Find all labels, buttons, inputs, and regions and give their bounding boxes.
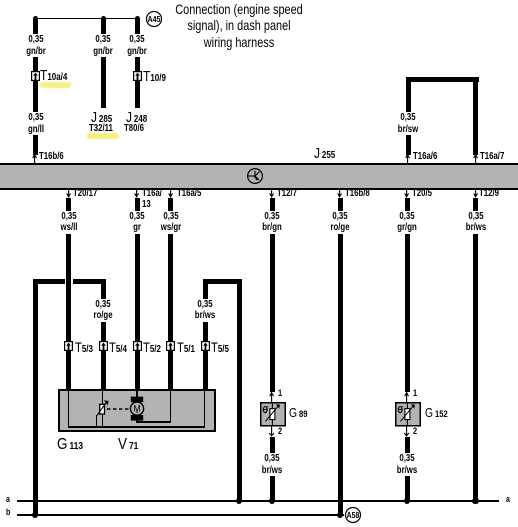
- label T80/6: [124, 123, 144, 134]
- connector pin symbol T5/4: [99, 341, 108, 351]
- label J285: [91, 111, 112, 127]
- connector pin symbol T5/1: [166, 341, 175, 351]
- wire: right branch horizontal: [203, 279, 242, 284]
- label T16a/5: [177, 188, 201, 199]
- bus bar J255 (dash panel wiring harness): [0, 163, 518, 190]
- connector pin symbol T10/9: [133, 71, 142, 81]
- wire: dashed wiper link to motor: [107, 408, 131, 410]
- ground line a: [17, 500, 499, 501]
- svg-text:A58: A58: [346, 510, 359, 520]
- wire: left branch horizontal (left segment): [33, 279, 65, 284]
- label T20/17: [73, 188, 97, 199]
- connector A58 circle: [345, 507, 361, 523]
- label 0,35 gn/br (left): [24, 34, 47, 57]
- label a (left): [6, 494, 10, 505]
- wire: G152 pin 2 lead: [404, 426, 410, 437]
- label 0,35 br/gn: [261, 211, 284, 234]
- label T5/1: [177, 340, 195, 357]
- label 0,35 br/ws (branch): [193, 299, 216, 322]
- label J248: [126, 111, 147, 127]
- label T5/2: [143, 340, 161, 357]
- wire: internal pin3 to motor: [136, 389, 138, 398]
- svg-text:A45: A45: [148, 14, 161, 24]
- label V71: [118, 438, 138, 454]
- label T5/4: [109, 340, 127, 357]
- wire: gr vertical from T16a/13 to control unit: [135, 198, 140, 389]
- symbol K in circle (harness connection): [247, 168, 263, 184]
- label 0,35 ro/ge: [329, 211, 351, 234]
- junction: top-right node: [135, 16, 140, 21]
- label T12/7: [277, 188, 297, 199]
- wire: ro/ge vertical to T5/4: [101, 283, 106, 389]
- connector pin symbol T5/5: [201, 341, 210, 351]
- junction: line a / branch wire: [236, 498, 242, 504]
- wire: G152 br/ws to ground line a: [405, 437, 410, 501]
- wire: top-right bridge horizontal br/sw: [406, 77, 479, 82]
- connector pin symbol T5/2: [133, 341, 142, 351]
- pin arrow T20/17: [66, 189, 72, 198]
- label pin 1 (G152): [413, 388, 417, 399]
- wire: ws/gr vertical from T16a/5 to control unit: [168, 198, 173, 389]
- label T16a/7: [480, 151, 504, 162]
- connector pin symbol T5/3: [64, 341, 73, 351]
- connector A45 circle: [146, 11, 162, 27]
- wire: vertical to ground line a: [237, 283, 242, 501]
- pin arrow T16b/6: [32, 154, 38, 163]
- label T32/11: [89, 123, 113, 134]
- label T16b/6: [39, 151, 64, 162]
- label a (right): [506, 494, 510, 505]
- wire: internal potentiometer bottom lead: [102, 414, 104, 427]
- pin arrow G89 pin 1: [269, 392, 275, 402]
- label 0,35 gr/gn: [396, 211, 419, 234]
- connector pin symbol T10a/4: [31, 71, 40, 81]
- label T20/5: [412, 188, 432, 199]
- wire: gr/gn vertical from T20/5 to G152: [405, 198, 410, 392]
- wire: left branch horizontal (right segment): [73, 279, 106, 284]
- wire: right vertical gn/br (to J248): [135, 19, 140, 109]
- wire: br/gn vertical from T12/7 to G89: [270, 198, 275, 392]
- wire: internal wiper tap: [96, 415, 98, 427]
- wire: internal pin2 to potentiometer: [102, 389, 104, 405]
- junction: line b / left wire: [32, 512, 38, 518]
- pin arrow T12/9: [473, 189, 479, 198]
- label 0,35 gr: [128, 211, 146, 234]
- wire: G89 pin 2 lead: [269, 426, 275, 437]
- pin arrow T12/7: [269, 189, 275, 198]
- label J255: [314, 147, 335, 163]
- label 0,35 gn/br (right): [126, 34, 149, 57]
- label 0,35 gn/br (middle): [92, 34, 115, 57]
- junction: top-middle node: [101, 16, 106, 21]
- label 0,35 ro/ge (branch): [92, 299, 114, 322]
- highlight mark under T32/11: [87, 133, 119, 138]
- wire: internal pin4 down: [170, 389, 172, 423]
- caption: connection description: [175, 1, 303, 50]
- ground line b: [17, 514, 345, 515]
- junction: line a / G152 wire: [404, 498, 410, 504]
- label T16a/6: [413, 151, 437, 162]
- sensor G152: [395, 402, 421, 427]
- highlight mark under T10a/4: [40, 82, 72, 87]
- label T5/3: [75, 340, 93, 357]
- label T16b/8: [345, 188, 370, 199]
- label pin 2 (G152): [413, 426, 417, 437]
- pin arrow T16b/8: [337, 189, 343, 198]
- pin arrow T16a/13: [134, 189, 140, 198]
- wire: top horizontal bus (engine speed signal): [33, 18, 139, 19]
- label b (left): [6, 507, 10, 518]
- node: box pin 1: [66, 387, 71, 392]
- wire: left vertical gn/br (to T16b/6): [33, 19, 38, 155]
- label T10a/4: [40, 69, 67, 85]
- wire: br/ws vertical to T5/5: [203, 283, 208, 389]
- label 0,35 br/ws: [464, 211, 487, 234]
- sensor G89: [260, 402, 286, 427]
- wire: internal motor-to-pin4 horizontal: [136, 421, 171, 423]
- wire: br/ws vertical from T12/9 to ground line a: [473, 198, 478, 501]
- label G89: [289, 406, 307, 422]
- pin arrow T20/5: [404, 189, 410, 198]
- motor V71: [128, 396, 146, 422]
- node: box pin 3: [135, 387, 140, 392]
- wire: bridge right vertical (to T16a/7): [473, 77, 478, 155]
- label T5/5: [211, 340, 229, 357]
- junction: top-left node: [33, 16, 38, 21]
- control unit G113/V71 box: [58, 389, 216, 432]
- label T12/9: [479, 188, 499, 199]
- label G113: [57, 438, 83, 454]
- label pin 2 (G89): [278, 426, 282, 437]
- wire: middle vertical gn/br (to J285): [101, 19, 106, 109]
- wire: internal pin1 down: [68, 389, 70, 428]
- label 0,35 br/sw: [396, 112, 419, 135]
- wire: internal pin5 down: [204, 389, 206, 428]
- junction: line a / G89 wire: [269, 498, 275, 504]
- wire: left vertical to ground line b: [33, 279, 38, 516]
- pin arrow T16a/5: [168, 189, 174, 198]
- node: box pin 4: [168, 387, 173, 392]
- label 0,35 ws/gr: [159, 211, 182, 234]
- node: box pin 5: [203, 387, 208, 392]
- potentiometer G113: [93, 398, 111, 418]
- wire: ro/ge vertical from T16b/8 to ground line b: [338, 198, 343, 515]
- label 0,35 ws/ll: [58, 211, 78, 234]
- label pin 1 (G89): [278, 388, 282, 399]
- junction: line a / T12/9 wire: [472, 498, 478, 504]
- pin arrow G152 pin 1: [404, 392, 410, 402]
- wire: ws/ll vertical from T20/17 to control unit: [66, 198, 71, 389]
- junction: line b / ro/ge wire: [337, 512, 343, 518]
- wire: G89 br/ws to ground line a: [270, 437, 275, 501]
- label 0,35 gn/ll: [26, 112, 45, 135]
- label T10/9: [143, 70, 166, 86]
- pin arrow T16a/6: [405, 154, 411, 163]
- wire: bridge left vertical (to T16a/6): [406, 77, 411, 155]
- label T16a/13: [142, 188, 162, 210]
- label 0,35 br/ws (G89): [260, 453, 283, 476]
- pin arrow T16a/7: [473, 154, 479, 163]
- wire: internal bottom bus: [68, 426, 206, 428]
- node: box pin 2: [101, 387, 106, 392]
- label G152: [425, 406, 448, 422]
- wire: internal motor bottom down: [136, 420, 138, 423]
- label 0,35 br/ws (G152): [395, 453, 418, 476]
